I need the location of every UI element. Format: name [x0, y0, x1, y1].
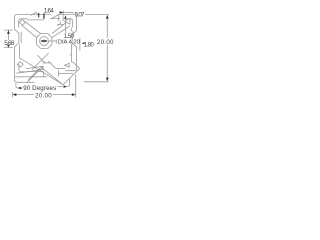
svg-text:20.00: 20.00 [35, 93, 52, 100]
svg-text:DIA 4.20: DIA 4.20 [58, 40, 80, 46]
svg-text:5.68: 5.68 [4, 40, 14, 47]
svg-text:1.80: 1.80 [84, 42, 95, 48]
svg-text:90 Degrees: 90 Degrees [23, 85, 56, 92]
svg-text:20.00: 20.00 [97, 39, 114, 46]
svg-text:1.64: 1.64 [44, 8, 54, 15]
svg-text:5.07: 5.07 [75, 11, 85, 18]
